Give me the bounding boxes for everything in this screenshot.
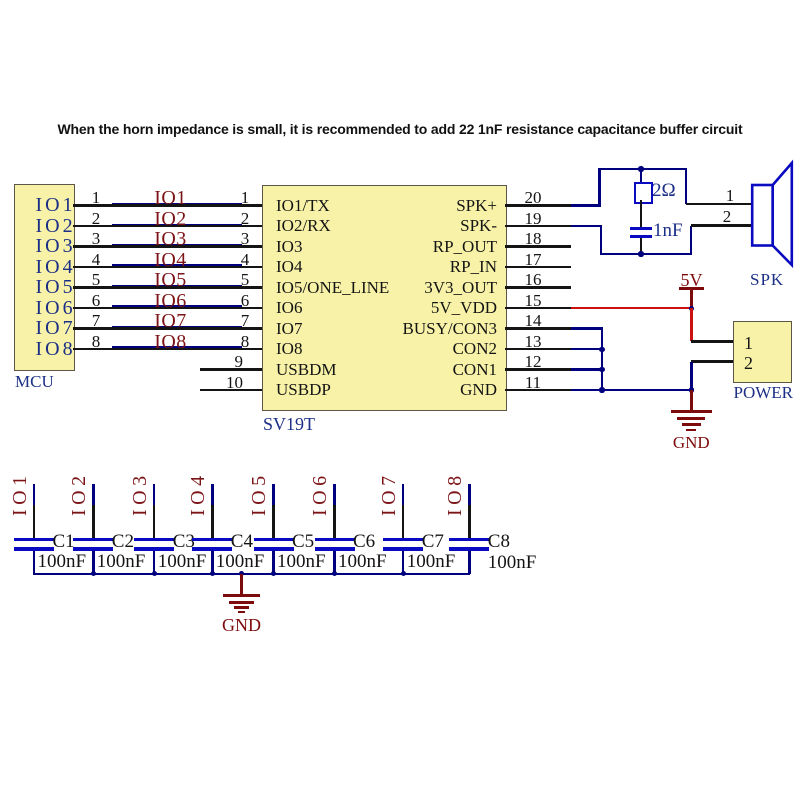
wire GND pin extension <box>571 389 603 392</box>
U1 pin number 18 <box>458 230 608 248</box>
U1 right pin name RP_OUT <box>347 238 497 256</box>
wire SPK+ extension <box>571 204 601 207</box>
GND stem bottom <box>240 574 243 595</box>
wire 5V to POWER pin1 vertical <box>690 308 693 341</box>
U1 left pin name IO6 <box>276 299 302 317</box>
wire BUSY/CON3 extension <box>571 327 603 330</box>
wire CON1 extension <box>571 368 603 371</box>
U1 pin 11 stub <box>505 389 571 392</box>
capacitor C1 top plate <box>14 538 54 542</box>
C2 designator <box>112 532 134 552</box>
MCU side pin number 6 <box>21 292 171 310</box>
C5 designator <box>292 532 314 552</box>
GND right bar4 <box>686 429 696 432</box>
U1 pin 12 stub <box>505 368 571 371</box>
junction bus x=212.3 <box>210 571 215 576</box>
wire net IO3 navy segment <box>112 244 242 246</box>
C4 value 100nF <box>216 552 265 572</box>
capacitor C2 bottom plate <box>73 547 113 551</box>
U1 side pin number 6 <box>170 292 320 310</box>
wire CON2 extension <box>571 348 603 351</box>
U1 pin number 11 <box>458 374 608 392</box>
title text <box>0 122 800 137</box>
net label IO8 (rotated) <box>445 472 463 516</box>
wire IO6 stub lower black <box>333 505 336 538</box>
wire MCU pin 6 to U1 pin 6 <box>73 307 262 310</box>
wire snubber right vertical <box>685 168 688 204</box>
U1 pin 17 stub <box>505 266 571 269</box>
U1 left pin name IO7 <box>276 320 302 338</box>
wire IO8 stub lower black <box>468 505 471 538</box>
U1 pin 15 stub <box>505 307 571 310</box>
MCU pin name IO1 <box>36 195 76 216</box>
wire POWER pin2 to gnd net <box>690 362 693 391</box>
POWER pin 2 number <box>744 354 753 373</box>
C3 value 100nF <box>158 552 207 572</box>
net label IO4 (rotated) <box>188 472 206 516</box>
net label IO6 <box>96 291 246 312</box>
net label IO5 (rotated) <box>249 472 267 516</box>
junction con bus CON1 <box>599 367 604 372</box>
junction bottom rail <box>638 251 643 256</box>
capacitor C8 bottom plate <box>449 547 489 551</box>
net label IO8 <box>96 332 246 353</box>
MCU label <box>15 373 54 391</box>
wire C8 to ground bus <box>468 551 471 574</box>
capacitor C6 bottom plate <box>315 547 355 551</box>
U1 pin 19 stub <box>505 225 571 228</box>
U1 pin number 13 <box>458 333 608 351</box>
wire net IO4 navy segment <box>112 264 242 266</box>
net label IO6 (rotated) <box>310 472 328 516</box>
junction bus x=334.5 <box>332 571 337 576</box>
U1 pin number 16 <box>458 271 608 289</box>
GND right bar2 <box>677 417 705 420</box>
SPK label <box>750 271 784 289</box>
junction top rail <box>638 166 643 171</box>
U1 right pin name GND <box>347 381 497 399</box>
U1 pin number 14 <box>458 312 608 330</box>
wire net IO6 navy segment <box>112 305 242 307</box>
U1 pin 14 stub <box>505 327 571 330</box>
capacitor C7 top plate <box>383 538 423 542</box>
net label IO7 (rotated) <box>379 472 397 516</box>
GND bottom bar1 <box>223 594 260 597</box>
U1 pin 16 stub <box>505 286 571 289</box>
junction bus x=154.2 <box>152 571 157 576</box>
wire C2 to ground bus <box>92 551 95 574</box>
wire snubber top rail <box>598 168 687 171</box>
R1 value 2&#937; <box>652 181 676 201</box>
POWER label <box>734 384 794 402</box>
net label IO1 <box>96 188 246 209</box>
SV19T label <box>263 415 315 434</box>
wire snubber bottom rail <box>600 253 692 256</box>
U1 side pin number 5 <box>170 271 320 289</box>
wire C4 to ground bus <box>211 551 214 574</box>
wire C1 to ground bus <box>33 551 36 574</box>
net label IO1 (rotated) <box>10 472 28 516</box>
wire snubber left-bottom vertical <box>600 226 603 255</box>
wire IO6 stub upper navy <box>333 484 336 505</box>
wire IO5 stub lower black <box>272 505 275 538</box>
resistor R1 2ohm body <box>634 182 653 204</box>
U1 right pin name CON1 <box>347 361 497 379</box>
U1 pin number 12 <box>458 353 608 371</box>
GND right bar3 <box>682 423 701 426</box>
capacitor C9 1nF top plate <box>630 227 652 230</box>
C3 designator <box>173 532 195 552</box>
U1 right pin name 5V_VDD <box>347 299 497 317</box>
POWER pin 1 number <box>744 334 753 353</box>
wire MCU pin 1 to U1 pin 1 <box>73 204 262 207</box>
U1 side pin number 8 <box>170 333 320 351</box>
U1 left pin name IO1/TX <box>276 197 330 215</box>
MCU side pin number 4 <box>21 251 171 269</box>
C4 designator <box>231 532 253 552</box>
wire C6 to ground bus <box>333 551 336 574</box>
MCU side pin number 5 <box>21 271 171 289</box>
U1 pin 10 stub <box>200 389 262 392</box>
GND label right <box>616 434 766 452</box>
junction con bus GND <box>599 387 604 392</box>
wire IO2 stub upper navy <box>92 484 95 505</box>
wire POWER pin 2 <box>691 360 733 363</box>
5V stem <box>690 290 693 308</box>
net label IO2 (rotated) <box>69 472 87 516</box>
wire IO8 stub upper navy <box>468 484 471 505</box>
wire C7 to ground bus <box>402 551 405 574</box>
wire to SPK pin 1 <box>686 203 752 206</box>
C7 value 100nF <box>407 552 456 572</box>
wire C3 to ground bus <box>153 551 156 574</box>
MCU side pin number 3 <box>21 230 171 248</box>
wire MCU pin 5 to U1 pin 5 <box>73 286 262 289</box>
MCU side pin number 1 <box>21 189 171 207</box>
U1 pin 9 stub <box>200 368 262 371</box>
wire IO4 stub lower black <box>211 505 214 538</box>
C6 value 100nF <box>338 552 387 572</box>
capacitor C5 top plate <box>254 538 294 542</box>
U1 side pin number 1 <box>170 189 320 207</box>
U1 left pin name IO5/ONE_LINE <box>276 279 389 297</box>
wire IO1 stub lower black <box>33 505 36 538</box>
IC U1 SV19T body <box>262 185 507 411</box>
MCU pin name IO7 <box>36 318 76 339</box>
SPK pin number 2 <box>652 208 800 226</box>
C1 value 100nF <box>38 552 87 572</box>
wire snubber left-top vertical <box>598 168 601 206</box>
ground bus bottom <box>33 573 470 576</box>
wire IO3 stub lower black <box>153 505 156 538</box>
U1 left pin name IO2/RX <box>276 217 331 235</box>
capacitor C6 top plate <box>315 538 355 542</box>
GND bottom bar2 <box>229 601 255 604</box>
wire net IO8 navy segment <box>112 346 242 348</box>
U1 pin number 20 <box>458 189 608 207</box>
capacitor C3 top plate <box>134 538 174 542</box>
capacitor C8 top plate <box>449 538 489 542</box>
wire net IO2 navy segment <box>112 224 242 226</box>
GND stem right <box>690 390 693 411</box>
wire net IO7 navy segment <box>112 326 242 328</box>
speaker LS1 symbol <box>748 158 798 270</box>
wire POWER pin 1 <box>691 340 733 343</box>
C5 value 100nF <box>277 552 326 572</box>
U1 side pin number 7 <box>170 312 320 330</box>
wire IO7 stub upper navy <box>402 484 405 505</box>
U1 left pin name USBDM <box>276 361 336 379</box>
wire IO1 stub upper navy <box>33 484 36 505</box>
net label IO7 <box>96 311 246 332</box>
MCU pin name IO5 <box>36 277 76 298</box>
POWER connector body <box>733 321 793 383</box>
C2 value 100nF <box>97 552 146 572</box>
capacitor C7 bottom plate <box>383 547 423 551</box>
U1 pin 20 stub <box>505 204 571 207</box>
MCU side pin number 2 <box>21 210 171 228</box>
wire to SPK pin 2 <box>691 224 752 227</box>
U1 pin 18 stub <box>505 245 571 248</box>
U1 right pin name 3V3_OUT <box>347 279 497 297</box>
capacitor C4 top plate <box>192 538 232 542</box>
C6 designator <box>353 532 375 552</box>
U1 left pin name IO8 <box>276 340 302 358</box>
wire IO4 stub upper navy <box>211 484 214 505</box>
junction gnd net right <box>689 387 694 392</box>
junction bus x=93.3 <box>91 571 96 576</box>
wire SPK- extension <box>571 225 602 228</box>
junction bus x=273.5 <box>271 571 276 576</box>
wire MCU pin 7 to U1 pin 7 <box>73 327 262 330</box>
wire MCU pin 8 to U1 pin 8 <box>73 348 262 351</box>
U1 pin number 17 <box>458 251 608 269</box>
MCU side pin number 7 <box>21 312 171 330</box>
net label IO3 (rotated) <box>130 472 148 516</box>
wire snubber right-bottom vertical <box>690 226 693 256</box>
U1 right pin name BUSY/CON3 <box>347 320 497 338</box>
net label IO3 <box>96 229 246 250</box>
capacitor C9 1nF bottom plate <box>630 235 652 238</box>
C8 designator <box>488 532 510 552</box>
GND right bar1 <box>671 410 712 413</box>
C9 value 1nF <box>653 221 683 241</box>
net label IO2 <box>96 209 246 230</box>
U1 pin number 19 <box>458 210 608 228</box>
junction 5V node <box>689 306 694 311</box>
U1 right pin name RP_IN <box>347 258 497 276</box>
U1 left pin name USBDP <box>276 381 331 399</box>
GND bottom bar4 <box>238 611 245 614</box>
U1 pin number 9 <box>93 353 243 371</box>
C7 designator <box>422 532 444 552</box>
wire net IO1 navy segment <box>112 203 242 205</box>
U1 pin number 10 <box>93 374 243 392</box>
GND bottom bar3 <box>234 606 250 609</box>
MCU pin name IO4 <box>36 257 76 278</box>
capacitor C5 bottom plate <box>254 547 294 551</box>
U1 side pin number 2 <box>170 210 320 228</box>
capacitor C3 bottom plate <box>134 547 174 551</box>
U1 left pin name IO4 <box>276 258 302 276</box>
MCU block J? <box>14 184 75 371</box>
5V power symbol bar <box>679 287 705 290</box>
wire IO5 stub upper navy <box>272 484 275 505</box>
MCU pin name IO8 <box>36 339 76 360</box>
wire MCU pin 4 to U1 pin 4 <box>73 266 262 269</box>
wire C9 bottom lead <box>640 238 643 254</box>
U1 right pin name SPK+ <box>347 197 497 215</box>
C8 value 100nF <box>488 553 537 573</box>
wire IO3 stub upper navy <box>153 484 156 505</box>
MCU pin name IO2 <box>36 216 76 237</box>
wire IO7 stub lower black <box>402 505 405 538</box>
wire IO2 stub lower black <box>92 505 95 538</box>
U1 left pin name IO3 <box>276 238 302 256</box>
wire C5 to ground bus <box>272 551 275 574</box>
U1 side pin number 4 <box>170 251 320 269</box>
U1 right pin name SPK- <box>347 217 497 235</box>
wire MCU pin 2 to U1 pin 2 <box>73 225 262 228</box>
MCU pin name IO6 <box>36 298 76 319</box>
wire R1 top lead <box>640 169 643 183</box>
capacitor C2 top plate <box>73 538 113 542</box>
capacitor C1 bottom plate <box>14 547 54 551</box>
5V label <box>617 271 767 290</box>
wire MCU pin 3 to U1 pin 3 <box>73 245 262 248</box>
wire 5V_VDD red <box>571 307 692 310</box>
GND label bottom <box>167 616 317 635</box>
SPK pin number 1 <box>655 187 800 205</box>
MCU side pin number 8 <box>21 333 171 351</box>
junction con bus CON2 <box>599 347 604 352</box>
MCU pin name IO3 <box>36 236 76 257</box>
U1 right pin name CON2 <box>347 340 497 358</box>
wire gnd bus horizontal <box>602 389 692 392</box>
capacitor C4 bottom plate <box>192 547 232 551</box>
junction bus x=403.2 <box>401 571 406 576</box>
U1 pin 13 stub <box>505 348 571 351</box>
net label IO5 <box>96 270 246 291</box>
U1 pin number 15 <box>458 292 608 310</box>
wire net IO5 navy segment <box>112 285 242 287</box>
junction bus gnd stem <box>239 571 244 576</box>
net label IO4 <box>96 250 246 271</box>
wire R1 to C9 <box>640 200 643 227</box>
wire con bus vertical <box>601 329 604 392</box>
C1 designator <box>53 532 75 552</box>
U1 side pin number 3 <box>170 230 320 248</box>
